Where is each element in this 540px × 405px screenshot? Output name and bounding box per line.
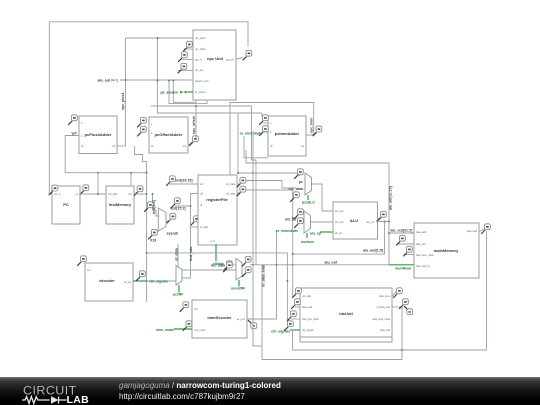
wire alu out diag — [376, 218, 380, 222]
svg-text:pc_source: pc_source — [195, 91, 206, 94]
svg-text:npc_rs: npc_rs — [195, 59, 203, 62]
wire npcUnit bottom loop — [169, 81, 207, 103]
wire pcOffset out diag — [188, 142, 192, 146]
node inst tap flag — [144, 202, 153, 212]
wire inst out to rail — [134, 193, 147, 195]
svg-text:branch_cond: branch_cond — [195, 80, 209, 83]
wire pc out to instMemory — [80, 193, 106, 195]
node flag rd — [167, 213, 176, 223]
junction — [384, 221, 386, 223]
svg-text:inst: inst — [194, 308, 198, 311]
svg-text:rs2_data: rs2_data — [302, 295, 312, 298]
svg-text:data_load_en: data_load_en — [416, 265, 431, 268]
wire lds inner loop — [300, 296, 392, 342]
wire npc_plus4 vertical rail — [125, 38, 127, 146]
svg-text:immDecoder: immDecoder — [207, 315, 232, 320]
node flag mm out — [481, 224, 490, 234]
node flag imm_mode — [183, 321, 192, 331]
node flag decoder inst — [77, 256, 86, 266]
node flag mm mask — [403, 246, 412, 256]
wire alu_op green — [320, 231, 333, 233]
junction dots — [168, 80, 170, 82]
junction — [146, 172, 148, 174]
block mainMemory — [414, 223, 479, 278]
wire rs2_data diag — [237, 192, 241, 193]
svg-text:imm_mode: imm_mode — [194, 330, 206, 332]
svg-text:rs2_data: rs2_data — [226, 193, 236, 196]
node flag lds out2 — [399, 299, 408, 309]
wire pc2RF sel green — [178, 285, 180, 293]
svg-text:inst_addr: inst_addr — [108, 193, 118, 196]
node flag pcPlus4 a — [68, 115, 77, 125]
svg-text:pc_source: pc_source — [160, 90, 178, 94]
wire inst out diag — [134, 192, 138, 194]
junction y173 x98 — [97, 172, 99, 174]
svg-text:data_store_mask: data_store_mask — [416, 254, 434, 257]
junction — [190, 205, 192, 207]
wire pc2alu out — [312, 184, 334, 211]
svg-text:inst_sdu: inst_sdu — [189, 247, 193, 261]
wire alu_out[31:2] to mainMemory — [389, 232, 414, 234]
svg-text:LAB: LAB — [67, 394, 90, 405]
node flag inst out — [134, 186, 143, 196]
svg-text:data_load: data_load — [302, 306, 313, 309]
wire offset top rail right — [196, 106, 256, 160]
node flag mem2rf in1 — [242, 256, 251, 266]
svg-text:rs1_data: rs1_data — [289, 187, 303, 191]
node flag rs2_data — [237, 186, 246, 196]
svg-text:alu_out == 1: alu_out == 1 — [98, 79, 118, 83]
wire rs2 in — [175, 194, 198, 207]
wire pc drop to PC-out rail — [97, 173, 99, 194]
junction — [172, 80, 174, 82]
svg-text:out: out — [112, 145, 116, 148]
svg-text:syscall: syscall — [167, 232, 179, 236]
svg-text:alu_out[1:0]: alu_out[1:0] — [363, 249, 383, 253]
node flag rs1_data — [237, 177, 246, 187]
wire alu_out[1:0] rail — [293, 222, 385, 255]
svg-text:ctrl_signals: ctrl_signals — [149, 280, 168, 284]
wire mux feed x152 — [153, 194, 160, 216]
svg-text:ee_imm: ee_imm — [237, 319, 245, 321]
wire step out to offset cin — [135, 146, 147, 162]
svg-text:npc_offset: npc_offset — [192, 115, 196, 134]
wire npc_iret stub — [178, 69, 194, 71]
svg-text:pc: pc — [299, 180, 303, 184]
wire lds byte_offset stub — [291, 318, 300, 320]
svg-text:npc Unit: npc Unit — [207, 56, 224, 61]
wire useImm sel green — [306, 233, 308, 238]
svg-text:'p4': 'p4' — [71, 131, 77, 135]
svg-text:m2_data: m2_data — [211, 264, 225, 268]
wire pc input diag — [296, 173, 300, 176]
svg-text:ee_immediate: ee_immediate — [240, 132, 263, 136]
wire y265 into loop — [250, 264, 277, 266]
svg-text:data_load: data_load — [467, 230, 478, 233]
svg-text:data_addr: data_addr — [416, 231, 427, 234]
wire y113 branch — [261, 113, 263, 117]
block immDecoder — [192, 300, 247, 338]
svg-text:alu_src2: alu_src2 — [335, 221, 344, 224]
wire top outer loop from npc_out flag — [49, 22, 248, 191]
block npcUnit — [193, 30, 236, 100]
svg-text:imm_mode: imm_mode — [156, 328, 174, 332]
svg-text:alu_src1: alu_src1 — [335, 210, 344, 213]
svg-text:data_stall: data_stall — [380, 329, 390, 332]
svg-text:alu_out[31:2]: alu_out[31:2] — [391, 229, 413, 233]
node flag npc_out — [243, 50, 252, 60]
junction — [152, 193, 154, 195]
node flag pc2alu pc — [294, 169, 303, 179]
svg-text:alu_out: alu_out — [325, 260, 338, 264]
svg-text:alu_op: alu_op — [335, 233, 343, 235]
svg-text:pcPlus4Adder: pcPlus4Adder — [85, 132, 112, 137]
svg-text:registerFile: registerFile — [206, 197, 228, 202]
wire mid rail x256 — [255, 160, 257, 265]
wire imm_mode green — [174, 328, 192, 330]
wire PC out diag — [80, 191, 84, 194]
wire rs1_data diag — [237, 184, 241, 185]
node flag pcImm out — [313, 126, 322, 136]
junction — [157, 80, 159, 82]
junction — [146, 252, 148, 254]
svg-text:ALU: ALU — [350, 218, 358, 223]
node flag mm data_size — [396, 235, 405, 245]
wire rs1data to pc2alu — [246, 181, 296, 189]
wire mid rail x253 — [253, 131, 262, 346]
svg-text:npc_offset: npc_offset — [195, 48, 206, 51]
node flag useimm in1 — [294, 209, 303, 219]
wire pc2ALU sel green — [307, 195, 309, 200]
wire useimm out to alu — [311, 221, 334, 223]
wire rd_data in — [191, 226, 199, 228]
wire npc_out diagonal — [236, 58, 243, 60]
junction — [286, 280, 288, 282]
svg-text:data_store_mask: data_store_mask — [372, 318, 390, 321]
svg-text:mem2RF: mem2RF — [231, 287, 245, 291]
node flag lds data_load — [291, 299, 300, 309]
node flag lds byte_offset — [287, 311, 296, 321]
svg-text:ctrl_sig: ctrl_sig — [124, 281, 132, 284]
wire pcImm out — [306, 132, 317, 135]
junction — [237, 172, 239, 174]
node flag lds out3 — [404, 306, 413, 315]
wire mm data_load out diag — [479, 229, 484, 232]
node flag useimm in2 — [294, 218, 303, 228]
svg-text:data_store: data_store — [379, 295, 391, 298]
junction x276 y319 — [276, 264, 278, 266]
node flag ee_imm — [248, 320, 257, 329]
svg-text:ctrl_signals: ctrl_signals — [271, 329, 290, 333]
svg-text:mainMemory: mainMemory — [434, 248, 459, 253]
block InstMemory — [106, 186, 134, 224]
wire pcImm a stub — [263, 122, 268, 124]
wire ctrl green into lds — [290, 329, 300, 331]
node flag npc_offset — [183, 41, 192, 51]
wire ctrl_signals rail — [140, 280, 176, 282]
svg-text:out: out — [301, 145, 305, 148]
svg-text:pc2RF: pc2RF — [173, 292, 183, 296]
block decoder — [85, 263, 133, 301]
wire ldsunit data_load stub — [295, 306, 300, 308]
wire pcImm top loop — [230, 103, 314, 176]
svg-text:InstMemory: InstMemory — [109, 202, 132, 207]
svg-text:out: out — [183, 145, 187, 148]
wire mem2RF sel green — [238, 280, 240, 287]
svg-text:rs1_data: rs1_data — [226, 183, 236, 186]
wire alu_out east — [376, 221, 389, 223]
node flag decoder out — [136, 271, 145, 281]
junction — [195, 105, 197, 107]
svg-text:inst: inst — [128, 193, 132, 196]
node flag PC out — [80, 185, 89, 195]
wire pcPlus4 out to npc_plus4 rail — [117, 145, 126, 147]
wire branch to useImm — [293, 217, 297, 219]
node flag rs1 — [166, 176, 175, 186]
wire pcImm b stub — [263, 131, 268, 133]
svg-text:npc_in: npc_in — [54, 194, 61, 196]
node flag pc2alu lower — [290, 192, 299, 202]
junction — [252, 172, 254, 174]
junction — [252, 264, 254, 266]
node flag mem2rf in2 — [242, 267, 251, 277]
wire lds out2 — [392, 306, 402, 308]
svg-text:ctrl_signals: ctrl_signals — [302, 329, 314, 332]
wire npc_plus4 into pin — [126, 37, 194, 39]
svg-text:npc_plus4: npc_plus4 — [195, 38, 206, 40]
wire mid vertical rail x146 — [146, 162, 148, 303]
node flag rfwrite — [223, 261, 232, 271]
node flag pcOffset a — [137, 117, 146, 127]
svg-text:data_size: data_size — [416, 243, 427, 246]
mux mem2RF — [236, 259, 242, 281]
wire ctrl rail y253 — [147, 253, 288, 322]
svg-text:inst[29:15]: inst[29:15] — [175, 179, 193, 183]
wire mem2RF to pc2RF rail — [182, 269, 236, 271]
node flag PC in — [49, 185, 58, 195]
wire data_load big loop — [293, 231, 487, 350]
wire left rail into PC pin — [49, 191, 52, 194]
junction — [388, 221, 390, 223]
wire npc_offset rail up — [151, 106, 196, 138]
svg-text:rd_data_load: rd_data_load — [377, 306, 391, 309]
junction — [388, 232, 390, 234]
wire alu_out==1 into branch_cond — [120, 79, 193, 81]
junction — [97, 193, 99, 195]
wire p4 const + left drop — [65, 136, 146, 173]
node flag immDecoder inst — [180, 302, 189, 312]
wire y253 rail junction — [292, 253, 294, 255]
wire m2_data into mux — [231, 264, 236, 266]
svg-text:pc2ALU: pc2ALU — [302, 201, 315, 205]
wire inst_sdu vertical — [176, 206, 191, 278]
wire mux out diag — [166, 220, 171, 222]
svg-text:alu_op: alu_op — [310, 232, 321, 236]
svg-text:ldsUnit: ldsUnit — [339, 311, 353, 316]
wire y163 rail to alu_out vertical — [246, 163, 389, 265]
wire ee_imm out diag — [247, 231, 277, 319]
node flag lds rs2 — [292, 288, 301, 298]
block registerFile — [198, 175, 237, 245]
wire y158 rail — [244, 136, 268, 158]
junction alu wire x npc_plus4 — [125, 79, 127, 81]
wire reg-out rail to pc2alu pc input y173 — [238, 172, 296, 174]
svg-text:npc_plus4: npc_plus4 — [121, 93, 125, 110]
svg-text:npc_iret: npc_iret — [195, 69, 204, 72]
block pcOffsetAdder — [149, 117, 188, 153]
block pcPlus4Adder — [79, 116, 117, 154]
block pcImmAdder — [268, 116, 306, 156]
node flag alu out — [377, 211, 386, 221]
mux pc2ALU — [305, 173, 312, 195]
junction — [292, 264, 294, 266]
wire x238 down — [237, 113, 239, 173]
wire rd_data_load loop — [262, 265, 402, 360]
junction — [146, 193, 148, 195]
block ldsUnit — [300, 288, 392, 342]
svg-text:inst: inst — [87, 269, 91, 272]
wire stub npc bottom — [158, 38, 263, 113]
wire rd_data vertical to pc2RF — [176, 244, 178, 270]
wire npc_offset stub — [184, 48, 193, 50]
node flag pcImm b — [259, 126, 268, 136]
svg-text:pcOffsetAdder: pcOffsetAdder — [155, 132, 183, 137]
svg-text:decoder: decoder — [99, 278, 115, 283]
svg-text:data_byte_offset: data_byte_offset — [302, 318, 319, 321]
svg-text:pcImmAdder: pcImmAdder — [275, 131, 300, 136]
wire mask flag stub — [404, 254, 414, 256]
svg-text:alu_out[31:15]: alu_out[31:15] — [389, 186, 393, 210]
mux syscall — [158, 208, 166, 231]
svg-text:npc_imm: npc_imm — [309, 118, 313, 133]
wire rs2data to useImm mux — [246, 190, 293, 296]
wire alu_out y265 rail — [277, 264, 390, 266]
wire decoder ctrl out green — [133, 280, 147, 282]
svg-text:inst[9:5]: inst[9:5] — [152, 200, 156, 214]
node flag x19 — [148, 229, 157, 239]
wire npc iret stub — [173, 81, 196, 102]
wire lds out1 diag — [392, 292, 396, 296]
junction — [286, 264, 288, 266]
wire rs1 in — [170, 183, 198, 185]
circuitlab logo — [20, 377, 110, 405]
svg-text:PC: PC — [63, 202, 69, 207]
wire rfWrite green — [215, 244, 217, 261]
node flag npc_iret — [178, 63, 187, 73]
svg-text:alu_out: alu_out — [366, 221, 374, 224]
mux useImm — [304, 211, 311, 233]
block ALU — [333, 202, 378, 239]
node flag rs2 — [171, 198, 180, 208]
wire memRead green — [389, 264, 414, 266]
svg-text:npc_out: npc_out — [226, 59, 235, 62]
node flag rd_data port — [190, 216, 199, 226]
svg-text:rf_wr: rf_wr — [210, 240, 215, 243]
node flag pcImm a — [259, 115, 268, 125]
node flag ctrl lds — [284, 321, 293, 331]
node flag m2_data — [223, 262, 232, 272]
svg-text:memRead: memRead — [395, 266, 411, 270]
node flag lds out1 — [393, 288, 402, 298]
svg-text:rd_data: rd_data — [200, 226, 209, 229]
wire npc_rs stub — [182, 59, 193, 61]
node flag pcOffset b — [137, 126, 146, 136]
svg-text:ee_immediate: ee_immediate — [276, 229, 299, 233]
svg-text:X19: X19 — [150, 239, 156, 243]
node flag pcOffset out — [189, 136, 198, 146]
junction — [401, 349, 403, 351]
node flag npc_rs — [178, 52, 187, 62]
wire drop to InstMemory top — [130, 173, 132, 186]
junction — [157, 37, 159, 39]
svg-text:rd_data: rd_data — [174, 248, 178, 261]
svg-text:rd_data_load: rd_data_load — [262, 265, 266, 287]
svg-text:useImm: useImm — [301, 240, 314, 244]
junction — [292, 217, 294, 219]
wire data_size flag stub — [397, 243, 414, 245]
block PC — [52, 186, 80, 224]
mux pc2RF — [176, 266, 182, 286]
junction — [146, 280, 148, 282]
junction y173 x131 — [130, 172, 132, 174]
